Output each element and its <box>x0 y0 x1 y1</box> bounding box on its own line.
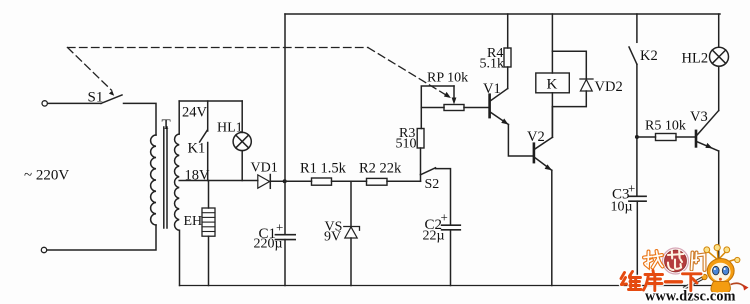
transistor V3 <box>695 130 698 148</box>
ku <box>652 271 655 274</box>
mascot antennae <box>708 249 737 262</box>
wire <box>47 225 156 250</box>
relay K <box>551 14 553 73</box>
tail <box>731 283 745 287</box>
svg-text:K2: K2 <box>640 48 658 64</box>
node junction VD1 output <box>283 179 287 183</box>
mouth <box>719 278 722 281</box>
svg-text:9V: 9V <box>324 230 341 245</box>
lamp HL2 <box>718 14 720 47</box>
svg-text:+: + <box>276 220 283 235</box>
svg-text:510: 510 <box>396 137 417 152</box>
switch K1 <box>207 101 209 131</box>
node junction R5 tap <box>635 135 639 139</box>
red text halo <box>621 272 701 291</box>
zener VS <box>350 181 352 226</box>
svg-text:VD1: VD1 <box>251 161 278 176</box>
svg-text:18V: 18V <box>185 168 211 184</box>
transistor V2 <box>533 142 536 163</box>
svg-text:+: + <box>441 210 448 225</box>
wire secondary top to 24V rail <box>178 101 180 134</box>
pointer stick <box>684 276 707 289</box>
svg-text:HL2: HL2 <box>682 51 709 67</box>
diode VD1 <box>258 175 270 188</box>
resistor R2 <box>367 178 388 185</box>
resistor R4 <box>504 48 511 67</box>
resistor R1 <box>285 180 312 182</box>
switch S1 <box>101 95 122 103</box>
xia <box>683 272 702 275</box>
transformer core <box>163 127 165 228</box>
red text wei ku yi xia <box>621 271 701 291</box>
resistor R3 <box>420 108 422 129</box>
potentiometer RP <box>444 105 464 111</box>
mascot head <box>707 259 734 284</box>
eyes <box>713 266 720 275</box>
svg-text:10µ: 10µ <box>611 200 633 215</box>
svg-text:HL1: HL1 <box>217 121 243 136</box>
svg-text:R5 10k: R5 10k <box>645 119 686 134</box>
char xin (core) white inside red magnifier <box>668 250 684 270</box>
char zhao (find) white/orange <box>644 251 663 268</box>
svg-text:VD2: VD2 <box>595 79 623 95</box>
svg-text:K1: K1 <box>188 141 206 157</box>
svg-text:R1 1.5k: R1 1.5k <box>300 161 347 177</box>
diode VD2 <box>552 51 586 79</box>
resistor R5 <box>637 136 656 138</box>
wire <box>124 103 157 135</box>
svg-text:V3: V3 <box>690 109 708 125</box>
dashed mechanical link <box>68 48 449 97</box>
transformer T primary <box>151 135 156 225</box>
svg-text:+: + <box>628 181 635 196</box>
svg-text:22µ: 22µ <box>423 229 445 244</box>
WATERMARK logo dzsc <box>621 245 749 304</box>
terminal top-left <box>42 101 47 106</box>
svg-text:5.1k: 5.1k <box>480 57 505 72</box>
svg-text:www.dzsc.com: www.dzsc.com <box>645 289 736 304</box>
wei <box>621 273 625 279</box>
switch S2 <box>420 175 422 182</box>
svg-text:T: T <box>162 117 171 133</box>
char pian (chip) white/orange <box>692 253 705 271</box>
capacitor C2 <box>442 224 461 226</box>
svg-text:V2: V2 <box>527 129 545 145</box>
wire 24V rail <box>179 100 242 102</box>
capacitor C1 <box>275 234 295 236</box>
dashed link arrowhead at S1 <box>109 91 114 96</box>
magnifier ring <box>663 248 689 274</box>
transformer T secondary <box>175 134 180 230</box>
wire <box>48 102 101 104</box>
svg-text:RP 10k: RP 10k <box>427 71 468 86</box>
wire top bus <box>285 13 720 15</box>
svg-text:S2: S2 <box>425 177 440 192</box>
switch K2 <box>636 14 638 42</box>
svg-text:V1: V1 <box>483 81 501 97</box>
wire left rail x285 <box>284 14 286 235</box>
svg-text:K: K <box>547 77 558 93</box>
wire 18V tap <box>179 180 258 182</box>
svg-text:24V: 24V <box>182 105 208 121</box>
yi <box>666 280 682 283</box>
svg-text:~ 220V: ~ 220V <box>24 168 69 184</box>
svg-text:EH: EH <box>184 214 203 229</box>
svg-text:R2 22k: R2 22k <box>359 161 402 177</box>
wire secondary bottom to bus <box>179 230 181 285</box>
wire bottom bus <box>180 285 721 287</box>
body <box>711 282 730 294</box>
heater EH <box>208 181 210 209</box>
capacitor C3 <box>629 195 646 197</box>
hand <box>702 274 707 279</box>
transistor V1 <box>488 93 491 118</box>
svg-text:S1: S1 <box>88 90 104 106</box>
svg-text:220µ: 220µ <box>254 237 283 252</box>
lamp HL1 <box>241 101 243 132</box>
terminal bottom-left <box>41 247 46 252</box>
